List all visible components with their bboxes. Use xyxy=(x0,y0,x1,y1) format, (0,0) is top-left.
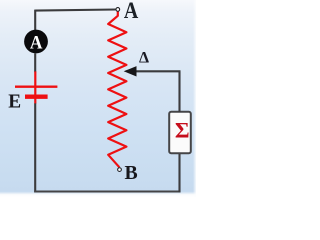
svg-text:E: E xyxy=(8,91,21,113)
sigma box (summation unit) xyxy=(169,112,191,154)
svg-text:Σ: Σ xyxy=(175,117,190,142)
wire right vertical lower (bottom rail to sigma box) xyxy=(178,153,180,192)
node B terminal (open circle) xyxy=(118,168,122,172)
wire left vertical lower (battery to bottom rail) xyxy=(34,103,36,192)
wire top horizontal (ammeter top to node A) xyxy=(35,10,116,11)
wiper arrowhead (points to rheostat) xyxy=(124,66,137,76)
rheostat A-B (red zigzag resistor) xyxy=(108,12,126,168)
label Δ (wiper position) xyxy=(139,50,149,67)
label E (battery) xyxy=(8,91,21,113)
svg-text:B: B xyxy=(125,162,139,184)
wire left vertical (ammeter to battery) xyxy=(34,53,36,72)
wire bottom rail xyxy=(34,190,180,192)
svg-text:A: A xyxy=(30,32,43,53)
wire left vertical upper (top corner to ammeter) xyxy=(34,10,36,31)
svg-text:Δ: Δ xyxy=(139,50,149,67)
label B (bottom terminal) xyxy=(125,162,139,184)
node A terminal (open circle) xyxy=(116,8,120,12)
wire right vertical upper (sigma box to wiper corner) xyxy=(178,71,180,112)
svg-text:A: A xyxy=(124,0,139,23)
battery E : long thin top plate xyxy=(15,86,57,88)
ammeter A (black circle meter) xyxy=(24,30,48,54)
label A (top terminal) xyxy=(124,0,139,23)
wire wiper shaft horizontal xyxy=(136,70,181,72)
battery E : short thick bottom plate xyxy=(25,95,48,99)
battery E : red lead through plates xyxy=(34,71,36,103)
